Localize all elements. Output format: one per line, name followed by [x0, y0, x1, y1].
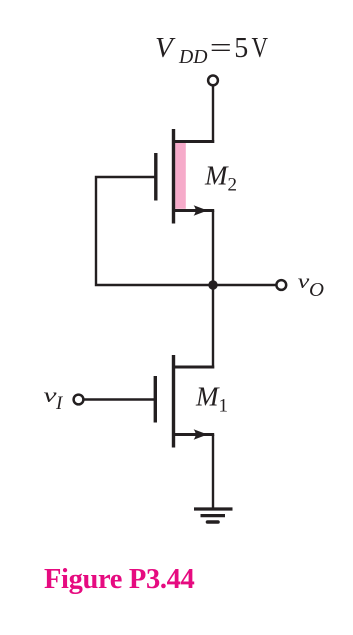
wire M2 gate feedback to output node [96, 177, 213, 285]
terminal vO [276, 280, 286, 290]
wire node down to M1 drain [212, 285, 214, 369]
source arrow of M1 [194, 429, 208, 439]
ground [194, 509, 233, 522]
drain lead of M1 [172, 366, 214, 369]
svg-text:Figure P3.44: Figure P3.44 [44, 564, 195, 595]
gate bar of M2 [154, 153, 157, 201]
node output junction [208, 280, 217, 289]
terminal VDD [208, 76, 218, 86]
source arrow of M2 [194, 205, 208, 215]
channel line of M2 [172, 129, 175, 224]
channel highlight (pink) of M2 [175, 143, 186, 209]
transistor M1 [155, 355, 214, 448]
wire VDD terminal to M2 drain [212, 86, 214, 143]
drain lead of M2 [172, 140, 214, 143]
channel line of M1 [172, 355, 175, 448]
terminal vI [74, 395, 84, 405]
source lead of M2 [172, 209, 214, 212]
gate bar of M1 [154, 376, 157, 423]
svg-text:VDD=5V: VDD=5V [155, 32, 268, 68]
wire M1 source down to ground [212, 435, 214, 510]
transistor M2 [156, 129, 214, 224]
wire M2 source down to output node [212, 211, 214, 286]
wire vI terminal to M1 gate [84, 398, 154, 400]
wire node to vO terminal [213, 284, 276, 286]
source lead of M1 [172, 433, 214, 436]
